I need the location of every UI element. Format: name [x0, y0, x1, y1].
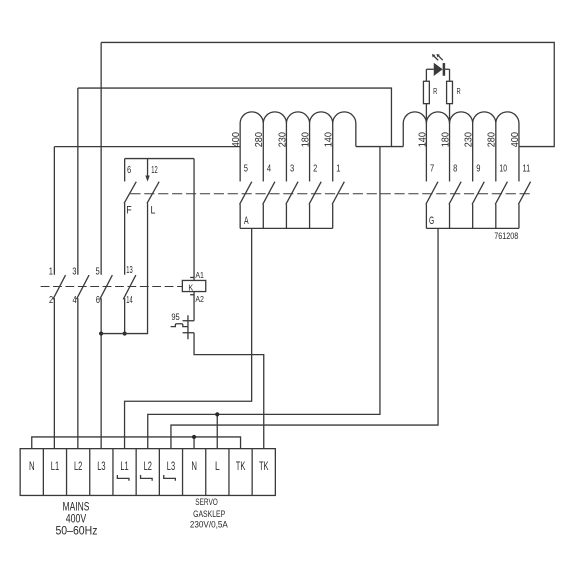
contact L thermostat with actuation arrow 12 — [147, 159, 149, 176]
svg-text:761208: 761208 — [494, 231, 518, 242]
contact K 5/6 of contactor — [100, 42, 102, 274]
svg-text:A1: A1 — [195, 271, 204, 280]
svg-text:L2: L2 — [74, 459, 82, 473]
svg-text:3: 3 — [290, 164, 294, 175]
svg-text:2: 2 — [49, 295, 53, 306]
node L junction — [215, 412, 219, 416]
svg-text:180: 180 — [300, 132, 311, 148]
terminal link symbol — [164, 475, 176, 481]
svg-text:6: 6 — [96, 295, 100, 306]
node junction contact 14 wire — [123, 331, 127, 335]
svg-text:GASKLEP: GASKLEP — [193, 509, 225, 519]
svg-text:R: R — [457, 86, 461, 96]
svg-text:K: K — [188, 282, 193, 292]
wire common down to servo L line — [148, 147, 380, 449]
svg-text:6: 6 — [127, 165, 131, 176]
thermal overload contact 95 — [183, 320, 195, 322]
svg-text:L: L — [151, 205, 156, 217]
svg-text:F: F — [126, 205, 132, 217]
svg-text:14: 14 — [126, 295, 133, 306]
svg-text:280: 280 — [487, 132, 498, 148]
transformer T1 common lead — [355, 123, 357, 146]
wire K coil output to terminal TK — [194, 333, 264, 449]
svg-text:10: 10 — [499, 164, 507, 175]
svg-text:4: 4 — [267, 164, 271, 175]
svg-text:280: 280 — [254, 132, 265, 148]
svg-text:TK: TK — [259, 459, 269, 473]
wire branch to terminal L servo — [216, 414, 218, 448]
svg-text:N: N — [191, 459, 197, 473]
svg-text:L: L — [215, 459, 220, 473]
contact F thermostat — [124, 159, 126, 182]
resistor R right — [449, 104, 451, 124]
svg-text:R: R — [433, 86, 437, 96]
wire from contact 3 to winding common junction — [78, 88, 392, 147]
svg-text:L2: L2 — [144, 459, 152, 473]
contact K 3/4 of contactor — [77, 88, 79, 275]
svg-text:9: 9 — [476, 164, 480, 175]
svg-text:8: 8 — [453, 164, 457, 175]
svg-text:L3: L3 — [97, 459, 105, 473]
svg-text:5: 5 — [244, 164, 248, 175]
coil K contactor — [193, 159, 195, 281]
svg-text:230: 230 — [464, 132, 475, 148]
transformer T1 tap 400 contact 5 — [239, 123, 241, 181]
svg-text:400: 400 — [510, 132, 521, 148]
wire coil K A2 to thermal contact — [193, 292, 195, 321]
svg-text:L1: L1 — [120, 459, 128, 473]
wire A bus down to terminal L1 servo — [125, 228, 252, 448]
svg-text:12: 12 — [151, 165, 158, 176]
svg-text:A: A — [244, 215, 249, 227]
transformer T2 tap 180 contact 8 — [449, 123, 451, 181]
svg-text:G: G — [429, 215, 434, 227]
wire N bus terminal N to TK — [32, 437, 241, 449]
transformer T1 tap 140 contact 1 — [332, 123, 334, 181]
svg-text:400: 400 — [231, 132, 242, 148]
contact K 13/14 auxiliary — [124, 298, 126, 333]
wire top from contact 5 to transformer T2 tap 400 — [101, 42, 554, 146]
svg-text:1: 1 — [336, 164, 340, 175]
transformer T1 tap 230 contact 3 — [285, 123, 287, 181]
svg-text:L1: L1 — [51, 459, 59, 473]
resistor R left — [425, 104, 427, 124]
transformer T1 winding arcs — [240, 112, 356, 124]
svg-text:140: 140 — [324, 132, 335, 148]
svg-text:50–60Hz: 50–60Hz — [55, 523, 97, 537]
svg-text:7: 7 — [430, 164, 434, 175]
wire branch to terminal N servo — [193, 437, 195, 449]
svg-text:11: 11 — [523, 164, 531, 175]
wire from contact 1 to transformer T1 tap 400 — [54, 146, 240, 148]
selector A bottom bus — [240, 227, 333, 229]
terminal link symbol — [141, 475, 153, 481]
node junction contact 6 wire — [99, 331, 103, 335]
transformer T2 tap 400 contact 11 — [518, 123, 520, 181]
svg-text:5: 5 — [96, 266, 100, 277]
svg-text:N: N — [29, 459, 35, 473]
svg-text:1: 1 — [49, 266, 53, 277]
transformer T2 tap 280 contact 10 — [495, 123, 497, 181]
transformer T2 winding arcs — [403, 112, 519, 124]
wire thermostat block top — [125, 158, 194, 160]
svg-text:140: 140 — [417, 132, 428, 148]
svg-text:L3: L3 — [167, 459, 175, 473]
selector G bottom bus — [426, 227, 519, 229]
svg-text:2: 2 — [313, 164, 317, 175]
svg-text:95: 95 — [171, 312, 179, 322]
transformer T2 tap 140 contact 7 — [425, 123, 427, 181]
contact K 1/2 of contactor — [53, 147, 55, 275]
svg-text:230V/0,5A: 230V/0,5A — [190, 520, 229, 530]
svg-text:4: 4 — [72, 295, 76, 306]
LED emission arrows — [434, 56, 438, 60]
transformer T1 tap 280 contact 4 — [262, 123, 264, 181]
svg-text:SERVO: SERVO — [195, 497, 218, 507]
svg-text:TK: TK — [236, 459, 246, 473]
transformer T2 tap 230 contact 9 — [472, 123, 474, 181]
svg-text:180: 180 — [440, 132, 451, 148]
LED D1 — [426, 68, 433, 70]
dashed mechanical linkage contactor row — [41, 285, 183, 287]
svg-text:13: 13 — [126, 265, 133, 276]
svg-text:3: 3 — [72, 266, 76, 277]
terminal block X1 mains and servo — [20, 449, 275, 496]
transformer T1 tap 180 contact 2 — [309, 123, 311, 181]
transformer T2 common lead — [402, 123, 404, 146]
svg-text:230: 230 — [277, 132, 288, 148]
wire G bus down to terminal L3 servo — [171, 228, 438, 448]
dashed mechanical linkage selector row — [130, 193, 530, 195]
node N junction — [192, 435, 196, 439]
wire winding common bus between T1 and T2 — [356, 146, 403, 148]
terminal link symbol — [117, 475, 129, 481]
svg-text:A2: A2 — [195, 295, 204, 304]
